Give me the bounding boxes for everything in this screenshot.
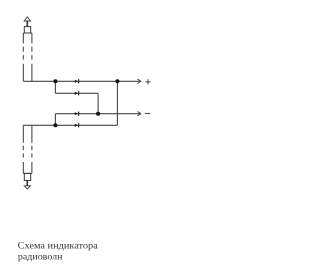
wire vertical node A drop [54,81,56,93]
antenna WA2 tip triangle [24,186,30,189]
antenna WA2 body right side (solid-dash-solid) [31,125,33,173]
antenna WA1 telescopic tip triangle [24,17,30,21]
output arrow - [137,112,141,116]
junction - rail dot [96,112,100,116]
diode VD2 [75,91,79,95]
antenna WA1 body right side (solid-dash-solid) [31,33,33,81]
label - [145,113,150,115]
wire row 2 (node A through VD2) [55,92,98,94]
diode VD1 [75,79,79,83]
svg-text:Схема индикатора: Схема индикатора [18,240,99,251]
antenna WA1 body left side (solid-dash-solid) [22,33,24,81]
wire vertical node B rise [54,114,56,126]
label + [145,79,150,84]
wire vertical + rail to row 4 [116,81,118,125]
diode VD3 [75,112,79,116]
antenna WA1 body top edge [23,32,32,34]
diode VD4 [75,123,79,127]
output arrow + [137,79,141,83]
antenna WA1 mast stub [26,21,28,26]
antenna WA2 mast stub [26,181,28,186]
junction node A dot [53,79,57,83]
antenna WA2 lower segment [24,173,30,180]
svg-text:радиоволн: радиоволн [18,251,63,262]
antenna WA2 body bottom edge [23,172,32,174]
junction + rail dot [115,79,119,83]
wire row 4 (antenna WA2 through VD4) [23,124,117,126]
wire row 1 (antenna WA1 to + output) [23,80,140,82]
wire row 3 (through VD3 to - output) [55,113,139,115]
wire vertical VD2 cathode drop [97,93,99,113]
antenna WA1 upper segment [24,27,30,33]
antenna WA2 body left side (solid-dash-solid) [22,125,24,173]
junction node B dot [53,123,57,127]
